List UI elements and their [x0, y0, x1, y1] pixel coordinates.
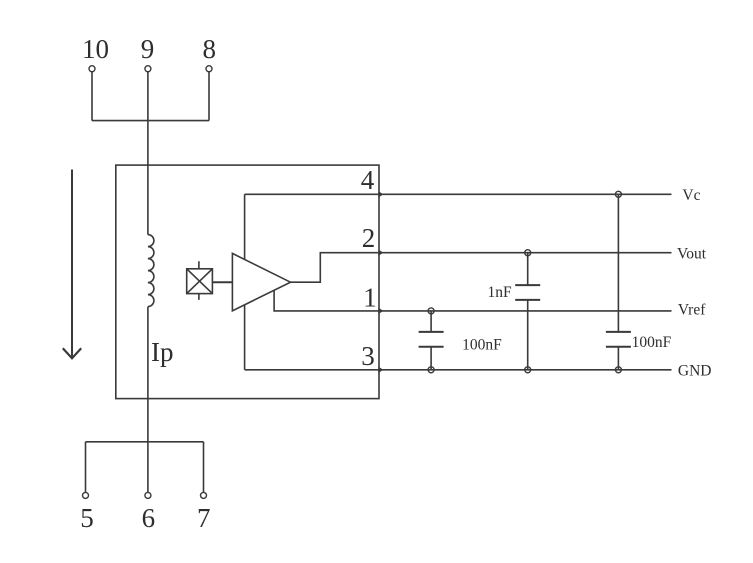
svg-text:Ip: Ip: [151, 337, 174, 367]
svg-text:1: 1: [363, 282, 377, 312]
svg-text:100nF: 100nF: [462, 336, 502, 353]
svg-text:GND: GND: [678, 363, 712, 380]
svg-text:100nF: 100nF: [632, 334, 672, 351]
svg-text:2: 2: [362, 223, 376, 253]
svg-text:10: 10: [82, 34, 109, 64]
svg-text:Vref: Vref: [678, 302, 706, 319]
svg-text:9: 9: [141, 34, 155, 64]
svg-text:Vc: Vc: [682, 187, 700, 204]
svg-text:Vout: Vout: [677, 246, 707, 263]
svg-text:7: 7: [197, 503, 211, 533]
svg-text:6: 6: [142, 503, 156, 533]
svg-text:3: 3: [361, 341, 375, 371]
svg-text:1nF: 1nF: [487, 284, 512, 301]
svg-text:8: 8: [203, 34, 217, 64]
svg-text:4: 4: [361, 165, 375, 195]
svg-text:5: 5: [80, 503, 94, 533]
